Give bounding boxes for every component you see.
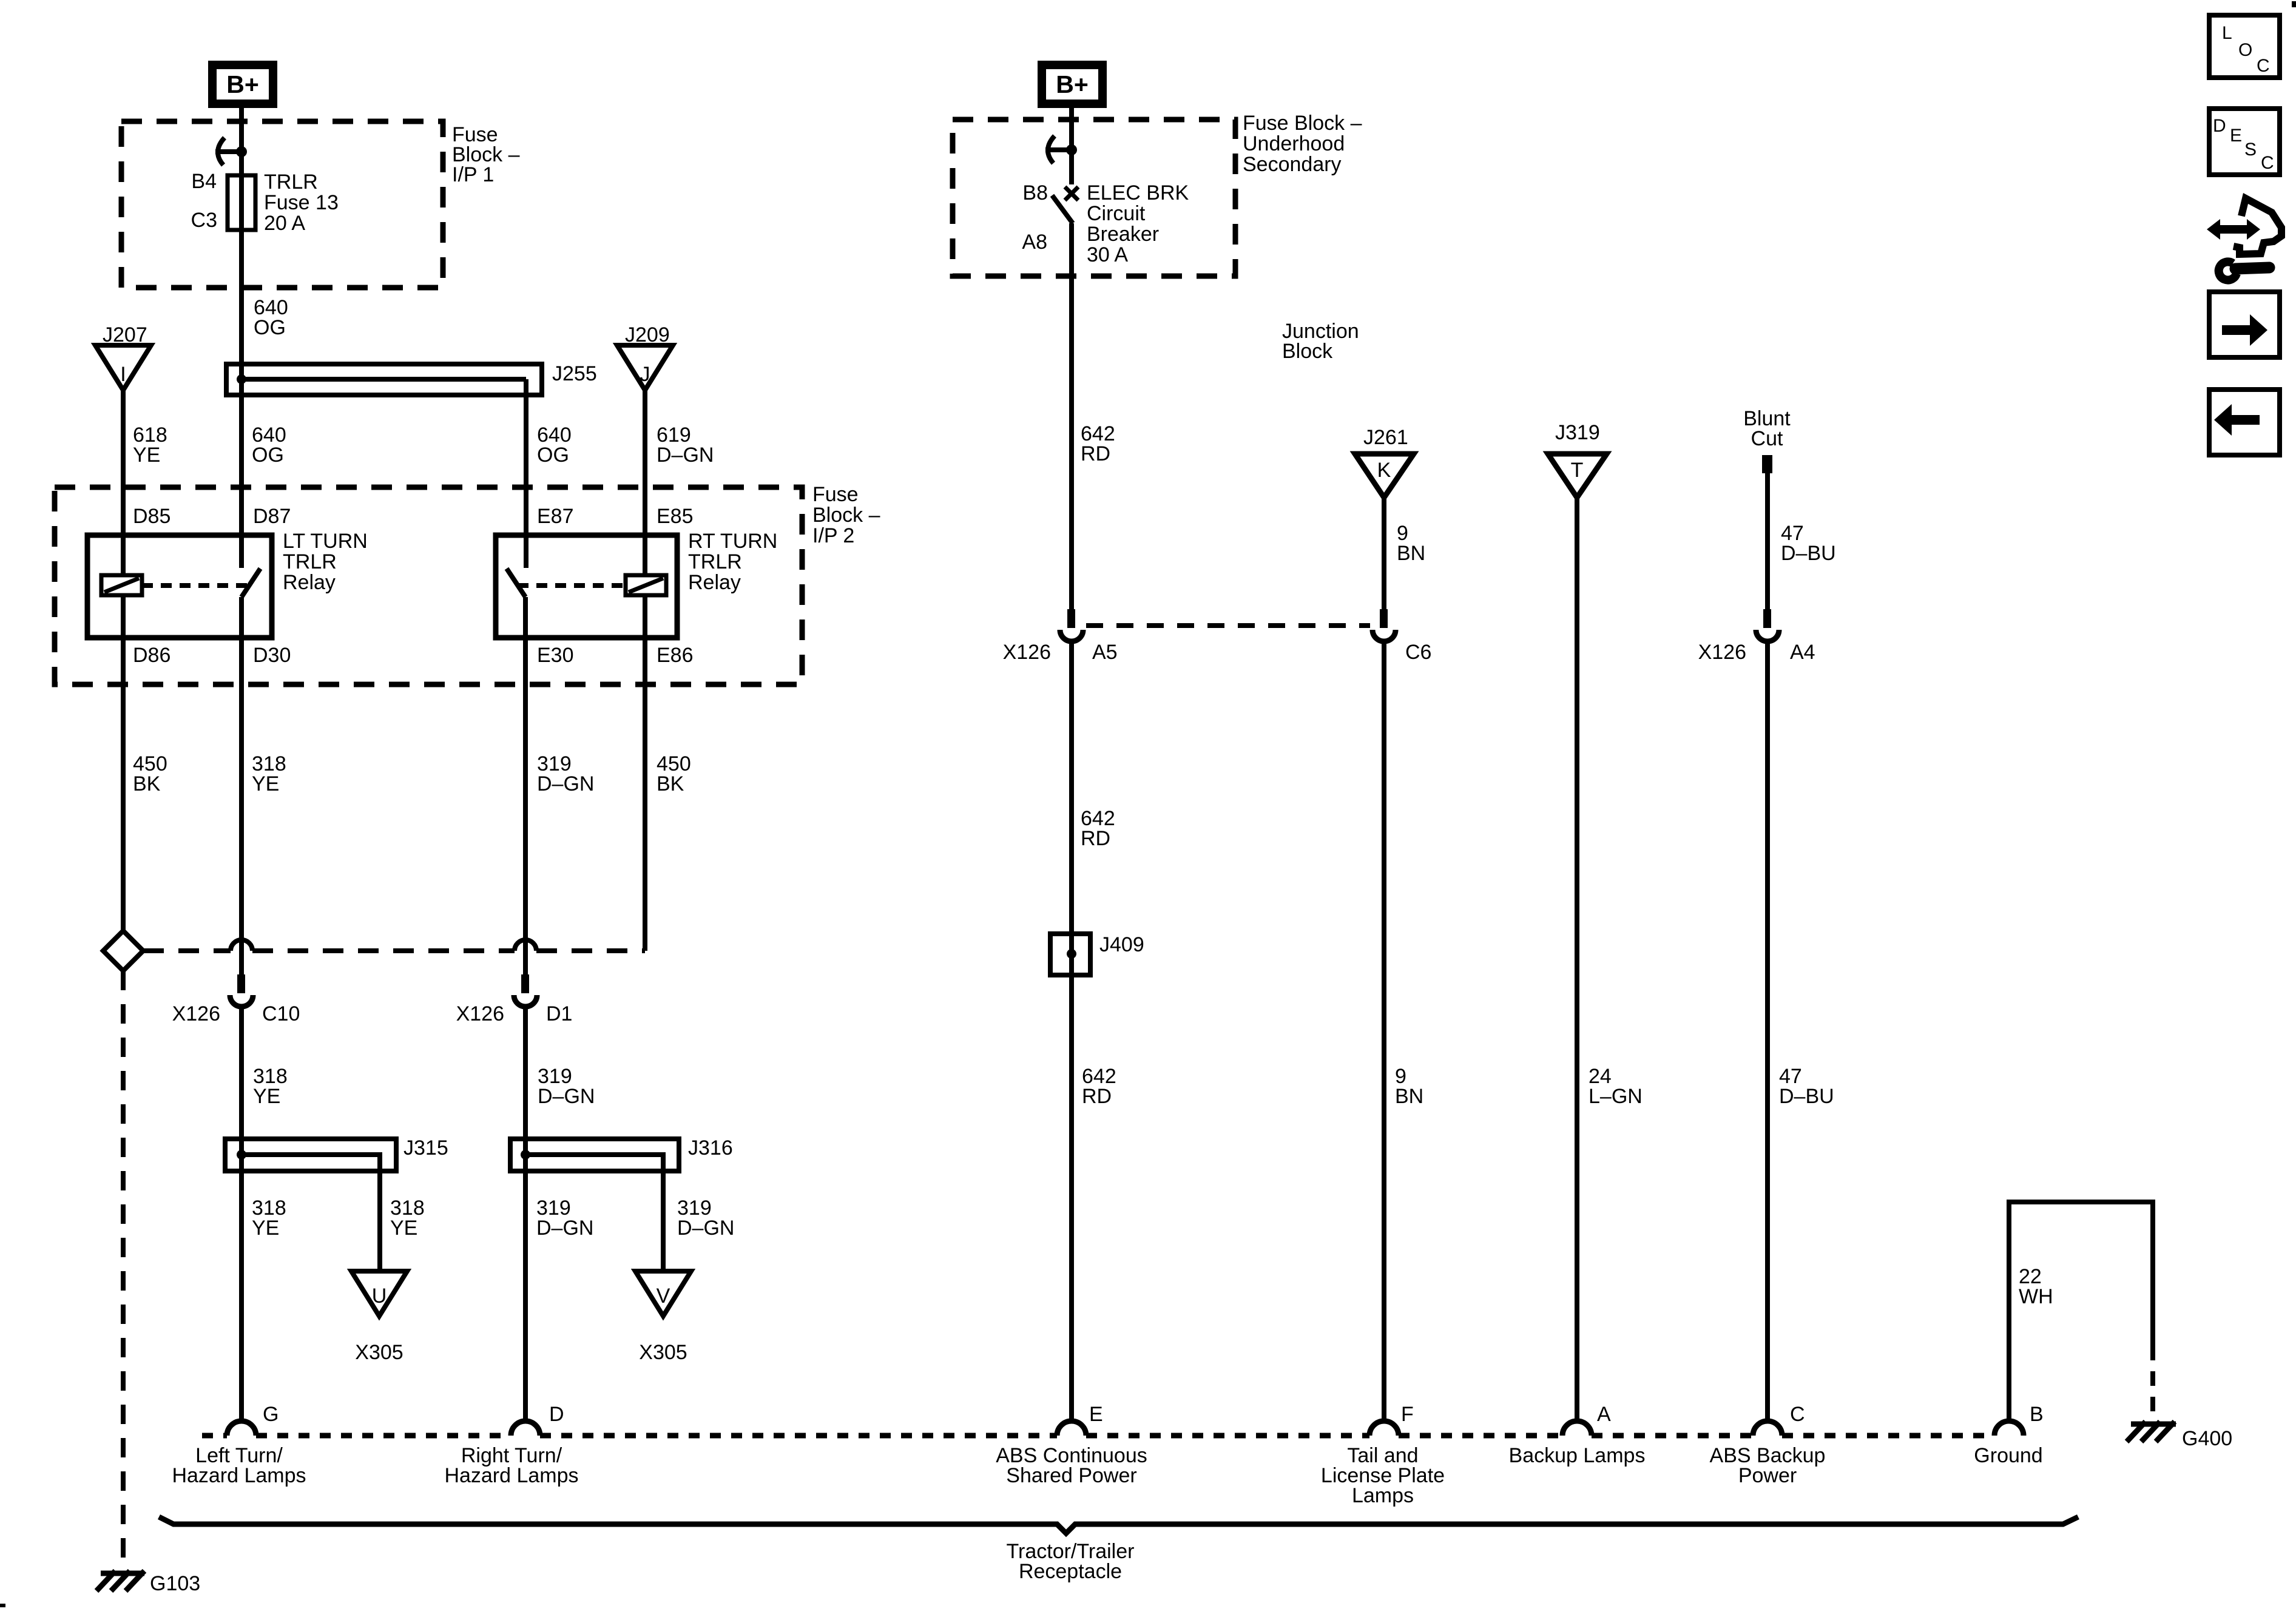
svg-text:Breaker: Breaker — [1087, 223, 1159, 246]
wire label 319 D-GN (to X305 V) — [677, 1197, 734, 1240]
dashed wire to G400 — [2150, 1346, 2155, 1419]
node label Right Turn/Hazard Lamps — [444, 1444, 578, 1487]
off-page connector U to X305 — [351, 1271, 407, 1364]
wire label 319 D-GN (to lamp D) — [536, 1197, 593, 1240]
pin label D85 — [133, 505, 171, 528]
svg-text:BN: BN — [1397, 542, 1425, 565]
pin label A8 — [1022, 231, 1047, 254]
pin label E86 — [657, 644, 694, 667]
pin label B8 — [1022, 181, 1048, 204]
power symbol B+ (left feed) — [212, 65, 273, 104]
svg-text:U: U — [372, 1284, 387, 1308]
relay K2 switch blade — [507, 569, 525, 597]
node label Backup Lamps — [1509, 1444, 1646, 1467]
svg-text:Relay: Relay — [688, 571, 741, 594]
svg-text:RD: RD — [1081, 442, 1110, 465]
svg-text:B+: B+ — [226, 70, 259, 98]
svg-text:G: G — [263, 1403, 279, 1426]
svg-text:YE: YE — [253, 1085, 280, 1108]
receptacle pin F arc — [1369, 1403, 1414, 1436]
wire: X126 C10 to J315 (318 YE) — [241, 1007, 288, 1421]
svg-text:OG: OG — [254, 316, 286, 339]
svg-text:BK: BK — [133, 772, 161, 795]
relay K2 actuator dashed link — [518, 583, 626, 588]
wire: relay D86 to ground diamond (450 BK) — [123, 595, 167, 934]
svg-text:X305: X305 — [355, 1341, 403, 1364]
relay K2 RT TURN TRLR Relay box — [496, 530, 777, 638]
svg-text:T: T — [1571, 459, 1584, 482]
svg-text:B4: B4 — [191, 170, 217, 193]
connector X126 pin C10 — [172, 974, 300, 1025]
circuit breaker ELEC BRK 30A element — [1052, 187, 1078, 223]
svg-text:S: S — [2244, 140, 2257, 160]
tractor/trailer receptacle bracket — [159, 1517, 2078, 1583]
svg-text:C: C — [2261, 153, 2274, 173]
svg-text:B8: B8 — [1022, 181, 1048, 204]
label Fuse Block - I/P 2 — [812, 483, 880, 547]
svg-text:ELEC BRK: ELEC BRK — [1087, 181, 1189, 204]
node label ABS Backup Power — [1710, 1444, 1826, 1487]
svg-text:D–BU: D–BU — [1781, 542, 1836, 565]
svg-text:X305: X305 — [639, 1341, 687, 1364]
receptacle pin E arc — [1057, 1403, 1103, 1436]
connector X126 pin A4 — [1698, 609, 1815, 664]
svg-text:Lamps: Lamps — [1352, 1484, 1414, 1507]
svg-text:X126: X126 — [1698, 641, 1746, 664]
relay K1 switch blade — [241, 569, 260, 597]
svg-text:D–BU: D–BU — [1779, 1085, 1834, 1108]
receptacle pin A arc — [1562, 1403, 1611, 1436]
label Fuse Block - I/P 1 — [452, 123, 520, 186]
svg-text:Secondary: Secondary — [1243, 153, 1342, 176]
icon box DESC — [2209, 109, 2280, 175]
svg-text:D–GN: D–GN — [657, 444, 714, 467]
fuse block underhood dashed outline — [953, 120, 1235, 276]
dashed connector face line X126 A5 to C6 — [1086, 623, 1370, 628]
svg-text:C6: C6 — [1405, 641, 1431, 664]
pin label E85 — [657, 505, 694, 528]
svg-text:OG: OG — [537, 444, 569, 467]
svg-text:B: B — [2030, 1403, 2044, 1426]
svg-text:WH: WH — [2019, 1285, 2053, 1308]
wire: J261 to receptacle F (9 BN) — [1384, 498, 1425, 1421]
bus tap symbol at fuse block feed — [215, 138, 247, 165]
off-page connector J207 (I) — [95, 323, 151, 390]
svg-text:Power: Power — [1738, 1464, 1797, 1487]
svg-text:J319: J319 — [1555, 421, 1600, 444]
wire: receptacle B ground loop (22 WH) — [2009, 1202, 2153, 1421]
svg-text:A: A — [1597, 1403, 1611, 1426]
svg-text:J: J — [640, 363, 650, 386]
wire: X126 D1 to J316 (319 D-GN) — [525, 1007, 595, 1421]
svg-text:G400: G400 — [2182, 1427, 2232, 1450]
svg-text:Ground: Ground — [1974, 1444, 2042, 1467]
wire: breaker to X126 A5 (642 RD) — [1072, 223, 1115, 610]
svg-text:D–GN: D–GN — [677, 1217, 734, 1240]
svg-text:A8: A8 — [1022, 231, 1047, 254]
fuse block I/P 2 dashed outline — [55, 487, 802, 684]
splice pack J316 — [510, 1136, 733, 1271]
pin label C3 — [191, 209, 217, 232]
svg-text:TRLR: TRLR — [264, 170, 318, 194]
svg-text:BK: BK — [657, 772, 684, 795]
svg-text:OG: OG — [252, 444, 284, 467]
fuse block I/P 1 dashed outline — [121, 121, 443, 288]
svg-text:G103: G103 — [150, 1572, 200, 1595]
receptacle pin D arc — [511, 1403, 564, 1436]
connector X126 pin C6 — [1373, 609, 1431, 664]
svg-text:BN: BN — [1395, 1085, 1423, 1108]
power symbol B+ (right feed) — [1042, 65, 1102, 104]
svg-text:Fuse: Fuse — [812, 483, 859, 506]
svg-text:K: K — [1377, 459, 1391, 482]
pin label D86 — [133, 644, 171, 667]
svg-text:RD: RD — [1082, 1085, 1112, 1108]
svg-text:Shared Power: Shared Power — [1006, 1464, 1136, 1487]
svg-text:I: I — [120, 363, 126, 386]
svg-text:C: C — [1790, 1403, 1805, 1426]
wire: relay E86 to ground dashed run (450 BK) — [645, 595, 691, 951]
svg-text:J261: J261 — [1363, 426, 1408, 449]
pin label B4 — [191, 170, 217, 193]
wire: J319 to receptacle A (24 L-GN) — [1577, 498, 1643, 1421]
dashed ground run diamond to E86 with wire hops — [143, 940, 645, 951]
wire: X126 A4 to receptacle C (47 D-BU) — [1768, 642, 1834, 1421]
icon box LOC — [2209, 15, 2280, 78]
relay K1 LT TURN TRLR Relay box — [87, 530, 368, 638]
svg-text:30 A: 30 A — [1087, 243, 1128, 266]
pin label E87 — [537, 505, 574, 528]
value label TRLR Fuse 13 20 A — [264, 170, 339, 235]
svg-text:Block –: Block – — [812, 504, 880, 527]
svg-text:Hazard Lamps: Hazard Lamps — [444, 1464, 578, 1487]
svg-text:D1: D1 — [546, 1002, 572, 1025]
svg-text:20 A: 20 A — [264, 212, 305, 235]
ground splice diamond — [103, 931, 143, 971]
svg-text:E85: E85 — [657, 505, 694, 528]
relay K1 actuator dashed link — [142, 583, 249, 588]
label Junction Block — [1282, 320, 1359, 363]
svg-text:Circuit: Circuit — [1087, 202, 1146, 225]
svg-text:L–GN: L–GN — [1589, 1085, 1643, 1108]
wire: J409 to receptacle E (642 RD) — [1072, 975, 1116, 1421]
svg-text:E: E — [2230, 126, 2242, 146]
svg-text:Fuse Block –: Fuse Block – — [1243, 112, 1362, 135]
svg-text:O: O — [2238, 40, 2252, 60]
wire label 318 YE (to X305 U) — [390, 1197, 425, 1240]
node label Ground — [1974, 1444, 2042, 1467]
icon diagnostic wrench with arrows — [2207, 198, 2281, 280]
receptacle pin G arc — [227, 1403, 279, 1436]
ground G400 — [2127, 1422, 2232, 1450]
fuse F13 TRLR 20A — [228, 175, 255, 230]
svg-text:YE: YE — [390, 1217, 417, 1240]
svg-text:TRLR: TRLR — [283, 550, 337, 573]
svg-text:D87: D87 — [253, 505, 291, 528]
svg-text:B+: B+ — [1056, 70, 1089, 98]
connector X126 pin D1 — [456, 974, 573, 1025]
receptacle pin C arc — [1753, 1403, 1805, 1436]
svg-text:J409: J409 — [1099, 933, 1144, 956]
node label ABS Continuous Shared Power — [996, 1444, 1147, 1487]
label Fuse Block - Underhood Secondary — [1243, 112, 1362, 176]
pin label E30 — [537, 644, 574, 667]
svg-text:D: D — [2213, 116, 2226, 136]
svg-text:Receptacle: Receptacle — [1019, 1560, 1122, 1583]
svg-text:L: L — [2222, 23, 2232, 43]
svg-text:RT TURN: RT TURN — [688, 530, 777, 553]
wire label 640 OG (above J255) — [254, 296, 288, 339]
off-page connector V to X305 — [635, 1271, 691, 1364]
svg-text:E86: E86 — [657, 644, 694, 667]
svg-text:X126: X126 — [172, 1002, 220, 1025]
svg-text:TRLR: TRLR — [688, 550, 742, 573]
icon box arrow right — [2209, 292, 2280, 357]
splice J409 — [1050, 933, 1144, 975]
receptacle dashed bus line — [202, 1433, 1994, 1439]
svg-text:F: F — [1401, 1403, 1414, 1426]
svg-text:D–GN: D–GN — [538, 1085, 595, 1108]
svg-text:E87: E87 — [537, 505, 574, 528]
svg-text:J316: J316 — [688, 1136, 733, 1160]
splice pack J255 — [226, 362, 597, 395]
node label Left Turn/Hazard Lamps — [172, 1444, 306, 1487]
wire: blunt cut to X126 A4 (47 D-BU) — [1768, 473, 1836, 610]
blunt cut stub — [1743, 407, 1791, 473]
svg-text:Relay: Relay — [283, 571, 336, 594]
svg-text:V: V — [657, 1284, 670, 1308]
svg-text:J315: J315 — [403, 1136, 448, 1160]
relay K2 coil — [626, 575, 666, 595]
svg-text:Hazard Lamps: Hazard Lamps — [172, 1464, 306, 1487]
svg-text:C3: C3 — [191, 209, 217, 232]
bus tap symbol at underhood feed — [1045, 136, 1077, 163]
svg-text:E: E — [1089, 1403, 1103, 1426]
wire label 318 YE (to lamp G) — [252, 1197, 286, 1240]
dashed ground wire diamond to G103 — [121, 971, 126, 1568]
svg-text:X126: X126 — [1003, 641, 1051, 664]
pin label D30 — [253, 644, 291, 667]
svg-text:C10: C10 — [262, 1002, 300, 1025]
connector X126 pin A5 — [1003, 609, 1118, 664]
node label Tail and License Plate Lamps — [1321, 1444, 1445, 1507]
svg-text:J255: J255 — [552, 362, 597, 385]
svg-text:Block: Block — [1282, 340, 1333, 363]
ground G103 — [96, 1571, 200, 1595]
off-page connector J261 (K) — [1355, 426, 1414, 498]
wire: B+ to circuit breaker — [1069, 104, 1074, 184]
icon box arrow left — [2209, 390, 2280, 455]
off-page connector J319 (T) — [1548, 421, 1607, 498]
svg-text:I/P 2: I/P 2 — [812, 524, 854, 547]
wire: J255 to relay E87 (640 OG) — [526, 379, 572, 568]
pin label D87 — [253, 505, 291, 528]
wire: J207 to relay coil D85 (618 YE) — [123, 390, 167, 575]
svg-text:I/P 1: I/P 1 — [452, 163, 494, 186]
svg-text:D86: D86 — [133, 644, 171, 667]
wire: J209 to relay E85 (619 D-GN) — [645, 390, 714, 575]
svg-text:Fuse 13: Fuse 13 — [264, 191, 339, 214]
svg-text:A4: A4 — [1790, 641, 1815, 664]
svg-text:D30: D30 — [253, 644, 291, 667]
svg-text:D–GN: D–GN — [537, 772, 594, 795]
svg-text:C: C — [2257, 56, 2270, 76]
svg-text:RD: RD — [1081, 827, 1110, 850]
svg-text:Cut: Cut — [1751, 427, 1783, 450]
svg-text:D: D — [549, 1403, 564, 1426]
off-page connector J209 (J) — [617, 323, 673, 390]
value label ELEC BRK Circuit Breaker 30 A — [1087, 181, 1189, 266]
svg-text:LT TURN: LT TURN — [283, 530, 368, 553]
relay K1 coil — [101, 575, 142, 595]
svg-text:A5: A5 — [1092, 641, 1118, 664]
svg-text:X126: X126 — [456, 1002, 504, 1025]
svg-text:YE: YE — [252, 772, 279, 795]
receptacle pin B arc — [1994, 1403, 2044, 1436]
svg-text:YE: YE — [252, 1217, 279, 1240]
svg-text:Underhood: Underhood — [1243, 132, 1345, 155]
svg-text:YE: YE — [133, 444, 160, 467]
svg-text:E30: E30 — [537, 644, 574, 667]
wire: relay E30 down to X126 D1 (319 D-GN) — [525, 597, 594, 976]
wire: B+ to fuse F13 (640 OG feed) — [239, 104, 244, 568]
wire: X126 A5 to J409 (642 RD) — [1072, 642, 1115, 977]
wire label 640 OG (below J255, relay D87 leg) — [252, 424, 286, 467]
wire: relay D30 down to X126 C10 (318 YE) — [241, 597, 286, 976]
svg-text:Backup Lamps: Backup Lamps — [1509, 1444, 1646, 1467]
svg-text:D–GN: D–GN — [536, 1217, 593, 1240]
svg-text:D85: D85 — [133, 505, 171, 528]
splice pack J315 — [225, 1136, 448, 1271]
